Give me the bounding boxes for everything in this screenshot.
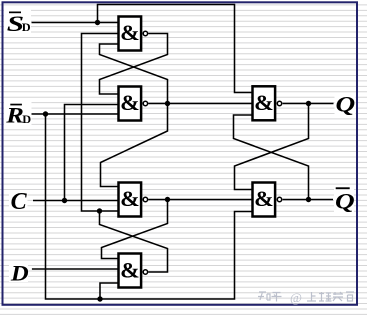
node Qbar junction — [306, 197, 311, 202]
node n4 junction — [97, 208, 102, 213]
wire Qbar output lead — [283, 199, 333, 201]
label C clock input — [9, 189, 28, 215]
svg-text:&: & — [120, 21, 140, 45]
svg-text:&: & — [120, 258, 140, 282]
wire net n2 feedback to G1 pin 3 — [100, 44, 168, 104]
wire Q feedback to G6 pin 1 — [235, 104, 309, 190]
wire Q output lead — [283, 103, 334, 105]
wire C branch to G2 pin 2 — [65, 105, 119, 201]
wire Qbar feedback to G5 pin 3 — [234, 115, 309, 200]
svg-text:&: & — [120, 187, 140, 211]
wire net n2 G2 output to G5 pin 2 — [148, 103, 252, 105]
label Qbar output — [334, 185, 355, 214]
node n2 junction — [165, 101, 170, 106]
nand gate G2 — [119, 87, 148, 121]
nand gate G3 — [119, 183, 148, 217]
svg-text:D: D — [22, 22, 31, 34]
wire C input lead to G3 pin 2 — [33, 200, 119, 202]
wire top feedback S_D to G5 pin 1 — [98, 5, 253, 93]
label R_D clear input — [4, 101, 32, 128]
svg-text:&: & — [254, 187, 274, 211]
wire R_D input lead to G2 pin 3 — [32, 113, 119, 115]
node bottom rail junction — [97, 296, 102, 301]
svg-text:@: @ — [290, 290, 302, 305]
wire D input lead to G4 pin 2 — [32, 268, 119, 270]
svg-text:&: & — [120, 91, 140, 115]
node S_D junction — [95, 20, 100, 25]
wire net n3 branch to G4 pin 1 — [102, 200, 168, 259]
svg-text:C: C — [11, 189, 28, 215]
label S_D preset input — [4, 9, 31, 36]
wire R_D bottom rail to G6 pin 3 — [46, 114, 253, 299]
label Q output — [335, 93, 356, 118]
wire net n2 branch to G3 pin 1 — [101, 104, 168, 187]
node C junction — [62, 198, 67, 203]
wire rail branch to G4 pin 3 — [100, 283, 119, 299]
node Q junction — [306, 101, 311, 106]
node R_D junction — [43, 111, 48, 116]
nand gate G6 — [253, 183, 282, 217]
label D data input — [9, 262, 29, 286]
nand gate G5 — [253, 86, 282, 120]
wire net n1 G1 output to G2 pin 1 — [100, 34, 168, 95]
watermark zhihu attribution — [258, 290, 354, 305]
svg-text:Q: Q — [335, 190, 355, 214]
wire S_D input lead to G1 pin 1 — [32, 22, 119, 24]
svg-text:Q: Q — [336, 93, 356, 117]
svg-text:D: D — [10, 262, 29, 286]
wire net n4 from G4 output through cross — [100, 211, 168, 272]
svg-text:R: R — [5, 103, 24, 127]
wire net n3 G3 output to G6 pin 2 — [148, 199, 252, 201]
nand gate G4 — [119, 254, 148, 288]
node n3 junction — [165, 197, 170, 202]
nand gate G1 — [119, 17, 148, 51]
svg-text:D: D — [22, 114, 31, 126]
svg-text:&: & — [254, 91, 274, 115]
wire net n4 to G1 pin 2 and G3 pin 3 — [82, 34, 119, 212]
